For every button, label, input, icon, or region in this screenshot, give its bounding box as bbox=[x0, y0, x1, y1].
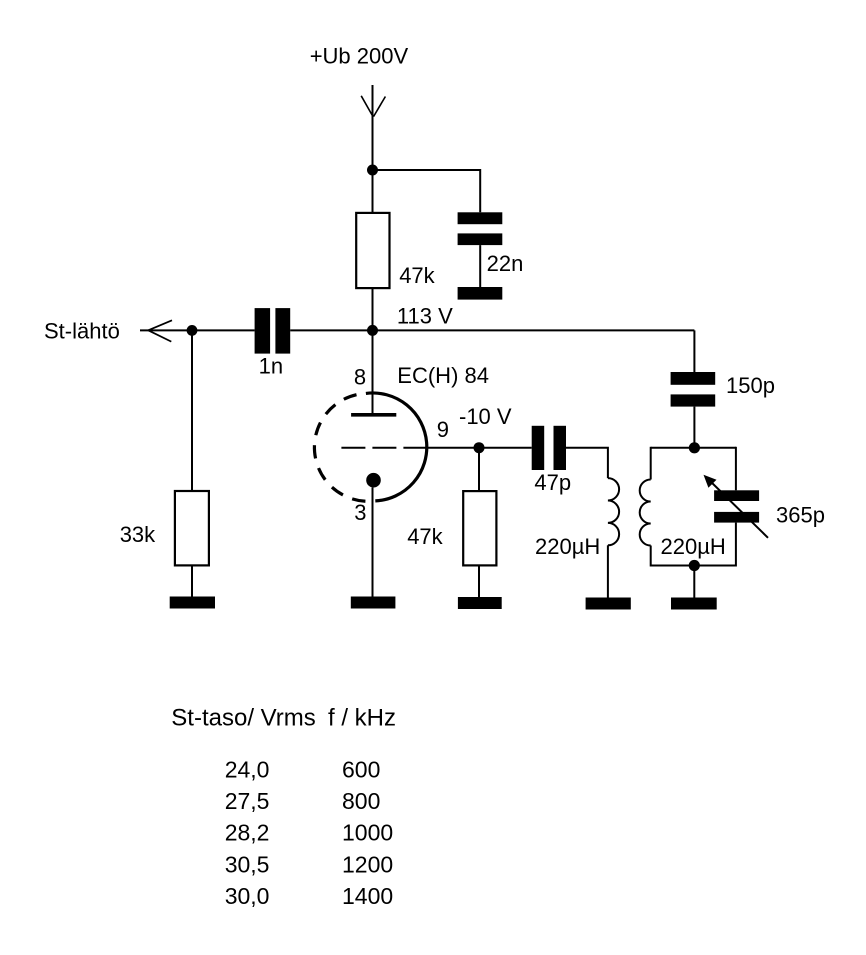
resistor 47k grid bbox=[463, 491, 496, 565]
capacitor C 365p plate 2 bbox=[714, 512, 759, 523]
tube U1 anode plate bar bbox=[351, 413, 396, 417]
wire supply vertical bbox=[372, 85, 374, 213]
svg-text:3: 3 bbox=[354, 500, 366, 525]
svg-text:EC(H) 84: EC(H) 84 bbox=[397, 363, 489, 388]
svg-text:1200: 1200 bbox=[342, 851, 393, 877]
svg-text:150p: 150p bbox=[726, 373, 775, 398]
tube U1 envelope solid arc bbox=[366, 393, 427, 501]
wire 150p to tank node bbox=[693, 407, 695, 448]
wire resistor to 113V node bbox=[372, 288, 374, 330]
wire main horizontal right of 1n bbox=[290, 329, 694, 331]
arrowhead variable cap bbox=[704, 475, 717, 488]
svg-text:St-lähtö: St-lähtö bbox=[44, 319, 120, 344]
svg-text:1n: 1n bbox=[259, 353, 283, 378]
svg-text:St-taso/ Vrms: St-taso/ Vrms bbox=[171, 704, 315, 731]
ground cathode bbox=[351, 597, 396, 609]
arrow St-lahto chevron bbox=[148, 320, 172, 341]
wire L1 to ground bbox=[607, 545, 609, 598]
node output junction bbox=[187, 325, 198, 336]
resistor 47k anode bbox=[356, 213, 389, 288]
svg-text:1000: 1000 bbox=[342, 820, 393, 846]
tube U1 envelope dashed arc bbox=[314, 393, 375, 501]
wire 113V node to 150p bbox=[693, 330, 695, 372]
wire tank bottom rail bbox=[651, 565, 736, 567]
resistor 33k bbox=[175, 491, 209, 565]
svg-text:24,0: 24,0 bbox=[225, 756, 270, 782]
wire main horizontal left of 1n bbox=[140, 329, 255, 331]
tube U1 cathode dot bbox=[366, 473, 381, 488]
wire tank left lower bbox=[650, 546, 652, 567]
wire 33k to ground bbox=[191, 565, 193, 597]
node junction top bbox=[367, 165, 378, 176]
wire tank left upper bbox=[650, 447, 652, 480]
wire node to 47k grid resistor bbox=[478, 448, 480, 491]
ground 22n bbox=[458, 287, 503, 300]
svg-text:365p: 365p bbox=[776, 502, 825, 527]
svg-text:220µH: 220µH bbox=[535, 534, 600, 559]
inductor L1 220uH coil bbox=[608, 478, 619, 545]
ground tank bbox=[671, 598, 717, 610]
wire tank to ground bbox=[693, 566, 695, 599]
svg-text:22n: 22n bbox=[487, 251, 524, 276]
svg-text:800: 800 bbox=[342, 788, 380, 814]
svg-text:28,2: 28,2 bbox=[225, 820, 270, 846]
svg-text:8: 8 bbox=[354, 365, 366, 390]
wire left branch vertical bbox=[191, 330, 193, 491]
svg-text:220µH: 220µH bbox=[661, 534, 726, 559]
svg-text:47k: 47k bbox=[399, 263, 435, 288]
capacitor C 47p plate 1 bbox=[532, 426, 545, 470]
svg-text:-10 V: -10 V bbox=[459, 404, 512, 429]
svg-text:f / kHz: f / kHz bbox=[328, 704, 396, 731]
wire tank top rail bbox=[651, 447, 736, 449]
wire 47p to inductor L1 bbox=[566, 448, 608, 478]
svg-text:27,5: 27,5 bbox=[225, 788, 270, 814]
ground 33k bbox=[170, 597, 215, 609]
svg-text:47k: 47k bbox=[407, 524, 443, 549]
ground L1 bbox=[586, 598, 631, 610]
wire tank right upper bbox=[735, 447, 737, 491]
capacitor C 150p plate 1 bbox=[671, 372, 716, 385]
svg-text:+Ub 200V: +Ub 200V bbox=[310, 44, 409, 69]
capacitor C 1n plate 2 bbox=[275, 308, 290, 354]
node tank top bbox=[689, 442, 700, 453]
svg-text:113 V: 113 V bbox=[397, 304, 453, 329]
node tank bottom bbox=[689, 560, 700, 571]
capacitor C 22n plate 2 bbox=[458, 233, 503, 245]
svg-text:9: 9 bbox=[437, 417, 449, 442]
wire tank right lower bbox=[735, 523, 737, 567]
node grid junction bbox=[474, 442, 485, 453]
arrow variable cap diagonal bbox=[708, 479, 769, 538]
capacitor C 47p plate 2 bbox=[554, 426, 567, 470]
arrow supply chevron bbox=[361, 96, 385, 117]
capacitor C 365p plate 1 bbox=[714, 490, 759, 501]
inductor L2 220uH coil bbox=[640, 480, 651, 546]
svg-text:30,0: 30,0 bbox=[225, 883, 270, 909]
wire anode pin 8 bbox=[372, 330, 374, 413]
node 113V bbox=[367, 325, 378, 336]
capacitor C 1n plate 1 bbox=[255, 308, 271, 354]
wire grid pin 9 bbox=[428, 447, 532, 449]
capacitor C 150p plate 2 bbox=[671, 394, 716, 406]
svg-text:30,5: 30,5 bbox=[225, 851, 270, 877]
svg-text:1400: 1400 bbox=[342, 883, 393, 909]
wire 22n to ground bbox=[479, 245, 481, 287]
capacitor C 22n plate 1 bbox=[458, 212, 503, 224]
ground 47k grid bbox=[458, 597, 502, 609]
svg-text:33k: 33k bbox=[120, 522, 156, 547]
svg-text:600: 600 bbox=[342, 756, 380, 782]
wire cathode pin 3 bbox=[372, 488, 374, 598]
wire 47k grid to ground bbox=[478, 565, 480, 597]
tube U1 grid dashed line bbox=[341, 447, 427, 449]
wire node to 22n bbox=[373, 170, 481, 212]
svg-text:47p: 47p bbox=[534, 470, 571, 495]
